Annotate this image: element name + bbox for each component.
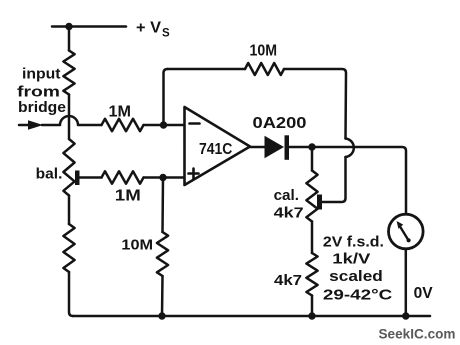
- potentiometer bal wiper bar: [75, 171, 80, 186]
- svg-text:4k7: 4k7: [274, 205, 304, 222]
- wire bal wiper to R2: [79, 176, 102, 179]
- resistor Ra (upper bridge arm): [63, 51, 74, 95]
- wire input after arrow with hop over bridge chain: [42, 116, 102, 125]
- wire chain top lead: [68, 27, 71, 51]
- resistor R5 4k7: [306, 253, 317, 296]
- svg-text:scaled: scaled: [329, 268, 383, 285]
- potentiometer cal. 4k7 body: [306, 171, 317, 222]
- svg-text:SeekIC.com: SeekIC.com: [379, 326, 456, 342]
- wire feedback to cal wiper: [322, 157, 346, 202]
- svg-text:1k/V: 1k/V: [332, 251, 370, 268]
- junction node inverting input: [160, 121, 167, 128]
- svg-text:10M: 10M: [121, 237, 153, 254]
- junction node diode output: [308, 143, 315, 150]
- svg-text:cal.: cal.: [274, 187, 299, 204]
- junction node 10M on 0V rail: [158, 312, 165, 319]
- junction node non-inverting input: [159, 174, 166, 181]
- meter M1 circle: [389, 214, 424, 249]
- wire chain between bal pot and Rb: [68, 196, 71, 225]
- svg-text:1M: 1M: [109, 104, 132, 121]
- wire chain between Ra and bal pot: [68, 95, 71, 140]
- junction node 4k7 on 0V rail: [308, 312, 315, 319]
- diode D1 cathode bar: [285, 135, 290, 160]
- svg-text:1M: 1M: [115, 188, 141, 205]
- op-amp non-inverting sign: [189, 169, 199, 179]
- wire diode cathode to meter corner: [288, 147, 406, 214]
- wire 0V bottom rail: [73, 315, 430, 318]
- svg-text:741C: 741C: [199, 141, 233, 158]
- potentiometer cal wiper bar: [317, 195, 322, 210]
- wire 4k7 bottom lead: [311, 296, 314, 317]
- svg-text:bridge: bridge: [18, 99, 66, 116]
- resistor R1 1M (input): [102, 119, 144, 131]
- wire feedback hop over output wire: [346, 139, 354, 158]
- svg-text:10M: 10M: [250, 43, 278, 60]
- wire feedback top right segment and right vertical down to hop: [284, 69, 346, 139]
- meter needle tail blob: [407, 238, 411, 242]
- junction node at +Vs: [65, 23, 72, 30]
- svg-text:0A200: 0A200: [253, 115, 307, 132]
- diode D1 OA200 triangle: [265, 136, 285, 158]
- svg-text:4k7: 4k7: [274, 272, 302, 289]
- input arrowhead: [28, 120, 43, 130]
- potentiometer bal. body: [63, 139, 74, 196]
- op-amp U1 741C triangle: [185, 107, 251, 185]
- meter needle: [400, 227, 408, 241]
- svg-text:2V f.s.d.: 2V f.s.d.: [323, 234, 384, 251]
- svg-text:+ V: + V: [136, 20, 162, 37]
- wire node to cal pot lead: [311, 147, 314, 171]
- resistor Rb (lower bridge arm): [63, 224, 74, 272]
- wire meter bottom lead: [405, 249, 408, 316]
- svg-text:0V: 0V: [414, 285, 434, 302]
- op-amp inverting sign: [190, 122, 200, 125]
- svg-text:29-42°C: 29-42°C: [323, 287, 393, 304]
- resistor R4 10M (to 0V): [157, 232, 168, 276]
- resistor R3 10M (feedback): [245, 63, 284, 75]
- wire +Vs rail: [52, 25, 126, 28]
- wire feedback left vertical: [164, 69, 168, 125]
- wire to inverting input: [144, 124, 185, 127]
- wire cal pot to 4k7: [311, 222, 314, 254]
- wire input lead: [19, 124, 32, 127]
- junction node meter on 0V rail: [402, 312, 409, 319]
- svg-text:S: S: [162, 28, 170, 40]
- wire to non-inverting input: [144, 176, 185, 179]
- svg-text:bal.: bal.: [36, 166, 63, 183]
- wire op-amp output to diode: [250, 146, 265, 149]
- resistor R2 1M (to non-inverting input): [102, 171, 144, 183]
- wire 10M grounding lead top: [161, 178, 164, 233]
- wire 10M grounding lead bottom: [161, 276, 164, 316]
- wire chain bottom lead to 0V rail: [69, 272, 73, 316]
- meter needle arrowhead: [397, 221, 404, 229]
- svg-text:from: from: [17, 84, 60, 101]
- svg-text:input: input: [22, 66, 61, 83]
- wire feedback top left segment: [168, 68, 246, 71]
